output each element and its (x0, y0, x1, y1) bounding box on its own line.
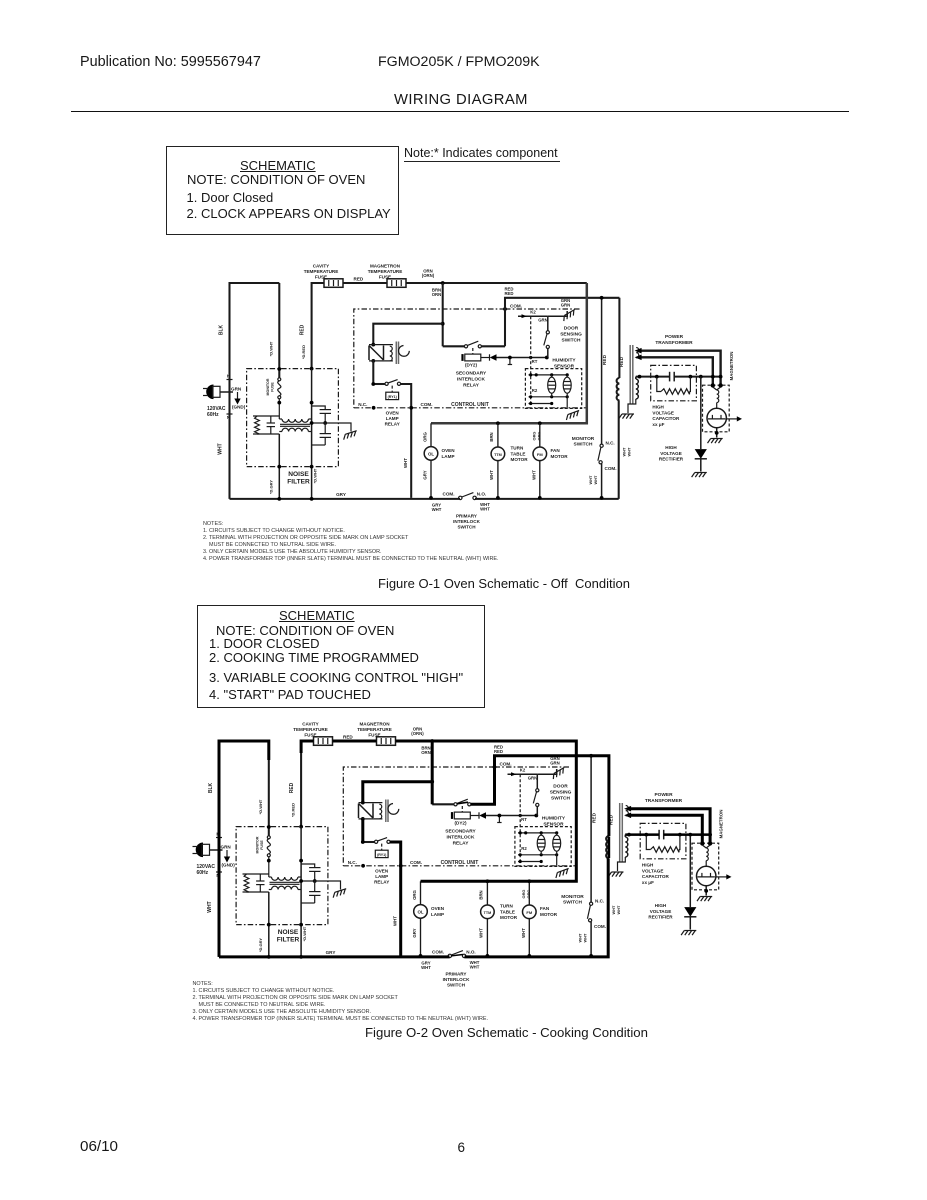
capacitor C noise filter (270, 416, 272, 423)
svg-text:COM.: COM. (432, 949, 444, 954)
svg-text:OL: OL (428, 452, 434, 457)
thermistor RT element (548, 377, 556, 393)
svg-text:GRY: GRY (412, 928, 417, 937)
wire RC bottom rail (243, 891, 269, 893)
wire rail into noise filter (278, 283, 280, 378)
filament lead lower (640, 357, 713, 384)
svg-text:BRN: BRN (479, 890, 484, 899)
svg-text:*D.GRY: *D.GRY (258, 938, 263, 952)
svg-text:BLK: BLK (219, 324, 225, 335)
svg-text:FM: FM (537, 452, 543, 457)
connector stub (509, 358, 511, 365)
relay coil RY1 box (375, 850, 388, 857)
node (486, 954, 490, 958)
svg-text:MOTOR: MOTOR (551, 454, 569, 459)
node (589, 954, 593, 958)
wire RC bottom rail (253, 433, 279, 435)
svg-text:CAPACITOR: CAPACITOR (652, 416, 680, 421)
wire contact riser (495, 756, 609, 805)
svg-text:N.O.: N.O. (466, 949, 475, 954)
oven schematic figure O-2 cooking condition (193, 722, 732, 988)
capacitor C1 noise filter (312, 406, 326, 410)
transformer secondary winding (636, 379, 639, 399)
svg-text:MOTOR: MOTOR (511, 457, 529, 462)
transformer filament winding (636, 348, 639, 358)
dashed sense line (519, 774, 521, 861)
node (486, 879, 490, 883)
wire bottom rail left (219, 956, 450, 958)
relay coil RY1 box (386, 392, 399, 399)
wire magnetron to ground (716, 428, 718, 438)
svg-text:HUMIDITY: HUMIDITY (542, 816, 566, 822)
svg-text:HIGH: HIGH (655, 903, 667, 908)
wire to chassis ground (548, 311, 567, 316)
svg-text:BLK: BLK (208, 782, 214, 793)
svg-text:OVEN: OVEN (375, 869, 389, 874)
wire to rectifier (700, 377, 702, 450)
node CU entry (493, 765, 497, 769)
svg-text:DOOR: DOOR (564, 326, 579, 332)
antenna output arrow (716, 876, 727, 878)
wire lamp to rail (420, 918, 422, 956)
svg-text:OVEN: OVEN (431, 906, 445, 911)
svg-text:CONTROL UNIT: CONTROL UNIT (451, 402, 489, 408)
wire TTM to rail (486, 919, 488, 956)
svg-text:HUMIDITY: HUMIDITY (552, 358, 576, 364)
wire to chassis ground (537, 769, 556, 774)
antenna output arrow (726, 418, 737, 420)
svg-text:RECTIFIER: RECTIFIER (659, 457, 684, 462)
svg-text:(DY2): (DY2) (455, 821, 467, 826)
oven lamp OL (414, 905, 428, 919)
svg-text:WHT: WHT (626, 447, 631, 456)
svg-text:ORG: ORG (536, 432, 541, 441)
node (538, 496, 542, 500)
wire relay to bottom rail (390, 842, 401, 956)
wire bottom rail left (230, 498, 461, 500)
resistor R2 bleed (646, 835, 650, 850)
wire to rectifier (689, 835, 691, 908)
svg-text:K2: K2 (530, 310, 536, 315)
svg-text:WHT: WHT (479, 928, 484, 938)
svg-text:TTM: TTM (484, 911, 492, 915)
capacitor C3 high voltage (669, 372, 671, 382)
primary interlock switch (448, 954, 451, 957)
svg-text:COM.: COM. (410, 860, 422, 865)
door sensing switch K2 (518, 315, 548, 317)
svg-text:(ORN): (ORN) (422, 273, 435, 278)
door sensing switch K2 (508, 773, 538, 775)
note indicates component (404, 146, 560, 162)
fuse F1 cavity temperature fuse (324, 279, 343, 288)
wire top run to right (396, 740, 577, 742)
svg-text:N.C.: N.C. (348, 860, 357, 865)
diode D1 in control unit (470, 815, 479, 817)
wire plug to rail (210, 849, 223, 851)
magnetron filament terminals (711, 383, 715, 387)
node (361, 864, 365, 868)
wire to chassis ground (312, 423, 351, 432)
wire transformer to lamp relay (362, 819, 364, 842)
relay coil DY2 (461, 354, 463, 361)
AC plug P1 (196, 843, 203, 858)
svg-text:WHT: WHT (593, 475, 598, 484)
svg-text:FAN: FAN (551, 448, 561, 453)
svg-text:60Hz: 60Hz (207, 412, 219, 418)
node (419, 954, 423, 958)
svg-text:*D.WHT: *D.WHT (313, 468, 318, 483)
node transformer tap (430, 780, 434, 784)
wire RED riser (312, 283, 324, 369)
svg-text:HIGH: HIGH (665, 445, 677, 450)
svg-text:GRN: GRN (528, 776, 538, 781)
svg-text:OVEN: OVEN (386, 411, 400, 416)
fan motor FM (533, 447, 547, 461)
svg-text:N.O.: N.O. (477, 491, 486, 496)
svg-text:CAVITY: CAVITY (302, 722, 319, 727)
svg-text:WHT: WHT (432, 507, 442, 512)
header publication number (80, 54, 261, 70)
node (519, 814, 522, 817)
node (600, 496, 604, 500)
filament lead upper (640, 351, 720, 384)
svg-text:FUSE: FUSE (304, 732, 316, 737)
svg-text:K2: K2 (520, 768, 526, 773)
wire secondary to ground (628, 399, 636, 413)
svg-text:ORG: ORG (412, 889, 417, 899)
filament lead upper (630, 809, 710, 842)
svg-text:SENSOR: SENSOR (554, 364, 575, 370)
wire humidity to ground (566, 397, 568, 408)
ground door switch (551, 768, 566, 780)
oven lamp OL (424, 447, 438, 461)
footer date (80, 1138, 118, 1155)
svg-text:(GND): (GND) (222, 863, 236, 868)
magnetron filament (713, 387, 717, 390)
ground arrow at plug (237, 392, 239, 399)
capacitor C2 noise filter (314, 881, 316, 892)
svg-text:FUSE: FUSE (260, 840, 264, 850)
node (399, 864, 403, 868)
wire between fuses (333, 740, 377, 742)
wire lamp stub (430, 423, 432, 446)
node NF in left (277, 367, 281, 371)
wire FM to rail (539, 461, 541, 498)
wire NF outputs to bottom rail (268, 892, 270, 957)
node (529, 356, 532, 359)
svg-text:WHT: WHT (521, 928, 526, 938)
svg-text:GRY: GRY (326, 950, 336, 955)
ground magnetron (708, 439, 723, 444)
svg-text:MONITOR: MONITOR (572, 436, 595, 442)
ground control unit (554, 868, 570, 878)
svg-text:SENSING: SENSING (560, 332, 582, 338)
wire TTM stub (486, 881, 488, 905)
monitor switch (590, 902, 593, 905)
node (323, 421, 327, 425)
svg-text:TEMPERATURE: TEMPERATURE (357, 727, 392, 732)
svg-text:FM: FM (526, 910, 532, 915)
svg-text:60Hz: 60Hz (197, 870, 209, 876)
svg-text:HIGH: HIGH (652, 405, 664, 410)
wire between fuses (343, 282, 387, 284)
svg-text:WHT: WHT (218, 443, 224, 454)
svg-text:MAGNETRON: MAGNETRON (359, 722, 390, 727)
wire RC top rail (243, 873, 269, 875)
svg-text:FILTER: FILTER (277, 937, 300, 944)
svg-text:TEMPERATURE: TEMPERATURE (368, 269, 403, 274)
diode D1 in control unit (481, 357, 490, 359)
notes list 2 (193, 981, 213, 987)
node transformer tap (441, 322, 445, 326)
node (277, 497, 281, 501)
node (310, 401, 314, 405)
svg-text:INTERLOCK: INTERLOCK (447, 835, 476, 841)
svg-text:*D.RED: *D.RED (291, 803, 296, 817)
humidity sensor wiring (529, 374, 568, 376)
svg-text:FUSE: FUSE (315, 274, 327, 279)
diode D2 high voltage rectifier (695, 449, 707, 459)
svg-text:WHT: WHT (403, 458, 408, 468)
svg-text:(RY1): (RY1) (388, 395, 398, 399)
svg-text:FUSE: FUSE (379, 274, 391, 279)
svg-text:COM.: COM. (500, 762, 512, 767)
svg-text:RELAY: RELAY (374, 880, 389, 885)
terminal tick H (216, 837, 222, 839)
notes list 1 (203, 521, 223, 527)
fuse F2 magnetron temperature fuse (377, 737, 396, 746)
fuse F1 cavity temperature fuse (314, 737, 333, 746)
node (267, 955, 271, 959)
svg-text:N.C.: N.C. (358, 402, 367, 407)
node (372, 406, 376, 410)
ground transformer (619, 414, 634, 419)
wire primary feed (618, 298, 620, 378)
wire branch down into control unit (442, 283, 444, 346)
svg-text:WHT: WHT (582, 933, 587, 942)
wire humidity to ground (556, 855, 558, 866)
svg-text:RELAY: RELAY (385, 422, 400, 427)
wire primary to rail (618, 400, 620, 499)
svg-text:SECONDARY: SECONDARY (445, 829, 476, 835)
wire FM to rail (528, 919, 530, 956)
svg-text:VOLTAGE: VOLTAGE (652, 410, 674, 415)
high voltage capacitor box (640, 823, 686, 858)
node (600, 296, 604, 300)
wire left rail BLK/WHT (219, 741, 269, 957)
svg-text:ORN: ORN (421, 750, 431, 755)
node (429, 496, 433, 500)
node top wire branch (430, 739, 434, 743)
svg-text:PRIMARY: PRIMARY (456, 514, 477, 519)
wire neutral drop (421, 741, 577, 881)
svg-text:ORN: ORN (432, 292, 442, 297)
thermistor RT element (537, 835, 545, 851)
svg-text:SWITCH: SWITCH (574, 442, 593, 448)
svg-text:PRIMARY: PRIMARY (445, 972, 466, 977)
high voltage bus (636, 376, 670, 378)
ground control unit (565, 410, 581, 420)
wire bottom rail right (475, 498, 619, 500)
svg-text:VOLTAGE: VOLTAGE (642, 868, 664, 873)
note box 1 (166, 146, 399, 235)
svg-text:COM.: COM. (594, 924, 606, 929)
filament lead lower (630, 815, 703, 842)
node (313, 879, 317, 883)
magnetron filament terminals (700, 841, 704, 845)
turntable motor TTM (491, 447, 505, 461)
wire TTM stub (497, 423, 499, 447)
magnetron box (703, 385, 730, 432)
svg-text:R2: R2 (521, 846, 527, 851)
svg-text:INTERLOCK: INTERLOCK (457, 377, 486, 383)
svg-text:R2: R2 (532, 388, 538, 393)
svg-text:ORG: ORG (423, 431, 428, 441)
noise filter box (247, 369, 339, 467)
header model numbers (378, 54, 540, 70)
svg-text:NOISE: NOISE (288, 471, 309, 478)
ground arrow at plug (226, 850, 228, 857)
svg-text:RED: RED (300, 324, 306, 335)
svg-text:(ORN): (ORN) (411, 731, 424, 736)
transformer core (629, 345, 631, 404)
svg-text:DOOR: DOOR (553, 784, 568, 790)
svg-text:COM.: COM. (443, 491, 455, 496)
svg-text:RED: RED (602, 354, 608, 365)
node (299, 879, 303, 883)
svg-text:(GND): (GND) (232, 405, 246, 410)
wire monitor drop (590, 756, 592, 902)
high voltage bus (625, 834, 659, 836)
wire FM stub (539, 423, 541, 447)
svg-text:MAGNETRON: MAGNETRON (718, 810, 723, 839)
svg-text:RED: RED (289, 782, 295, 793)
svg-text:RED: RED (592, 812, 598, 823)
capacitor C1 noise filter (301, 864, 315, 868)
control unit box (343, 767, 494, 866)
relay contact DY2 secondary interlock (432, 803, 454, 805)
resistor R noise filter (244, 874, 249, 892)
transformer core (619, 803, 621, 862)
svg-text:*D.WHT: *D.WHT (269, 341, 274, 356)
node (299, 859, 303, 863)
svg-text:CAVITY: CAVITY (313, 264, 330, 269)
wire primary to rail (607, 858, 609, 957)
svg-text:GRY: GRY (336, 492, 346, 497)
terminal tick H (227, 379, 233, 381)
svg-text:VOLTAGE: VOLTAGE (660, 451, 682, 456)
node CU entry (503, 307, 507, 311)
svg-text:*D.WHT: *D.WHT (258, 799, 263, 814)
turntable motor TTM (481, 905, 495, 919)
magnetron V1 tube (707, 408, 726, 427)
svg-text:RED: RED (354, 277, 364, 282)
svg-text:OL: OL (417, 910, 423, 915)
svg-text:INTERLOCK: INTERLOCK (443, 977, 470, 982)
humidity sensor wiring (518, 832, 557, 834)
node (538, 421, 542, 425)
svg-text:WHT: WHT (480, 507, 490, 512)
oven schematic figure O-1 off condition (203, 264, 742, 530)
svg-text:NOISE: NOISE (278, 929, 299, 936)
svg-text:MOTOR: MOTOR (540, 912, 558, 917)
terminal tick N (227, 413, 233, 415)
wire monitor drop (601, 298, 603, 444)
humidity sensor box (515, 827, 571, 867)
svg-text:ORG: ORG (526, 890, 531, 899)
svg-text:LAMP: LAMP (386, 416, 399, 421)
transformer filament winding (626, 806, 629, 816)
node (527, 954, 531, 958)
svg-text:(DY2): (DY2) (465, 363, 477, 368)
wire bottom rail right (465, 956, 609, 958)
dashed sense line (530, 316, 532, 403)
svg-text:GRN: GRN (550, 761, 560, 766)
humidity sensor box (525, 369, 581, 409)
svg-text:FUSE: FUSE (271, 382, 275, 392)
svg-text:MONITOR: MONITOR (266, 378, 270, 395)
wire contact riser (505, 298, 619, 347)
svg-text:BRN: BRN (489, 432, 494, 441)
svg-text:GRN: GRN (561, 303, 571, 308)
relay contact RY1 (375, 840, 378, 843)
transformer T noise filter (282, 419, 308, 422)
figure O-2 caption (365, 1025, 648, 1040)
resistor R2 bleed (657, 377, 661, 392)
svg-text:*D.GRY: *D.GRY (269, 480, 274, 494)
magnetron filament (702, 845, 706, 848)
fuse FU monitor fuse coil (267, 836, 270, 839)
svg-text:TABLE: TABLE (511, 451, 526, 456)
svg-text:FILTER: FILTER (287, 479, 310, 486)
wire RED riser (301, 741, 313, 827)
capacitor C noise filter (259, 874, 261, 881)
ground magnetron (697, 897, 712, 902)
wire NF outputs to bottom rail (278, 434, 280, 499)
svg-text:SENSING: SENSING (550, 790, 572, 796)
wire TTM to rail (497, 461, 499, 498)
node (527, 879, 531, 883)
svg-text:WHT: WHT (421, 965, 431, 970)
node NF (277, 401, 281, 405)
node (545, 356, 549, 360)
svg-text:LAMP: LAMP (375, 874, 388, 879)
wire lamp to rail (430, 460, 432, 498)
svg-text:TURN: TURN (511, 446, 524, 451)
wire relay to bottom rail (401, 384, 412, 498)
svg-text:LAMP: LAMP (442, 454, 455, 459)
svg-text:LAMP: LAMP (431, 912, 444, 917)
transformer T1 control (373, 324, 442, 345)
svg-text:N.C.: N.C. (595, 899, 604, 904)
node (496, 421, 500, 425)
wire primary feed (608, 756, 610, 836)
transformer T2 power primary (617, 378, 620, 400)
thermistor R2 element (563, 377, 571, 393)
ground rectifier (692, 473, 707, 478)
svg-text:xx μF: xx μF (652, 422, 664, 427)
transformer T noise filter (272, 877, 298, 880)
svg-text:RED: RED (504, 291, 513, 296)
ground door switch (562, 310, 577, 322)
wire top run to right (406, 282, 587, 284)
svg-text:MONITOR: MONITOR (256, 836, 260, 853)
svg-text:FUSE: FUSE (368, 732, 380, 737)
svg-text:RED: RED (343, 735, 353, 740)
svg-text:RECTIFIER: RECTIFIER (648, 915, 673, 920)
ground transformer (608, 872, 623, 877)
svg-text:N.C.: N.C. (606, 441, 615, 446)
